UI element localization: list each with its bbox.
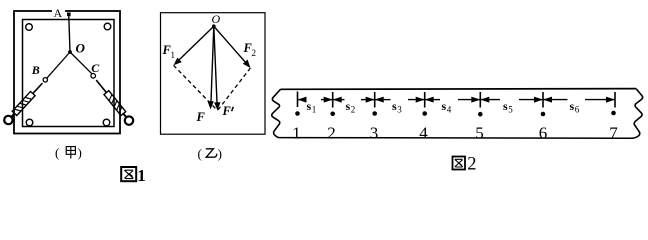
tape right torn edge — [633, 89, 643, 139]
board inner rectangle — [23, 20, 115, 127]
s4 arrows — [425, 97, 481, 103]
hook loop C — [91, 74, 96, 79]
svg-text:1: 1 — [171, 50, 176, 60]
label s3 — [392, 99, 402, 115]
pin at A — [67, 13, 71, 17]
label s5 — [503, 99, 513, 115]
force F1 arrow — [174, 26, 214, 65]
svg-text:6: 6 — [575, 105, 580, 115]
hole bottom-left — [26, 119, 33, 126]
dashed side from F2 tip — [218, 68, 251, 111]
s3 arrows — [375, 97, 425, 103]
tick mark 7 — [614, 92, 616, 108]
tape top edge — [281, 88, 637, 91]
timer dot 6 — [541, 112, 546, 117]
timer dot 5 — [478, 112, 483, 117]
timer dot 2 — [330, 112, 335, 117]
svg-text:3: 3 — [370, 123, 379, 142]
string O to C — [70, 52, 92, 74]
force F2 arrow — [214, 26, 251, 68]
svg-text:2: 2 — [327, 123, 336, 142]
dashed side from F1 tip — [174, 65, 218, 110]
timer dot 3 — [372, 111, 377, 116]
label A background patch — [52, 8, 65, 17]
timer dot 7 — [611, 111, 616, 116]
tick mark 4 — [424, 92, 426, 108]
caption tu 2 — [453, 154, 477, 174]
svg-text:1: 1 — [312, 105, 317, 115]
svg-text:F: F — [196, 110, 206, 124]
label F1 — [162, 43, 176, 60]
svg-text:): ) — [78, 145, 82, 160]
tape bottom edge — [279, 137, 633, 140]
hole bottom-right — [103, 119, 110, 126]
s6 arrows — [543, 97, 615, 103]
force F arrow — [208, 26, 214, 109]
svg-text:O: O — [76, 41, 86, 56]
svg-text:A: A — [54, 6, 63, 20]
svg-text:(: ( — [198, 146, 202, 161]
tick mark 2 — [332, 92, 334, 108]
svg-text:6: 6 — [539, 123, 548, 142]
label s4 — [442, 99, 452, 115]
hook loop B — [43, 78, 47, 82]
spring scale left — [2, 80, 45, 126]
knot O — [68, 50, 72, 54]
svg-text:7: 7 — [609, 123, 618, 142]
svg-text:2: 2 — [467, 154, 476, 174]
svg-text:5: 5 — [475, 123, 484, 142]
svg-text:1: 1 — [137, 166, 146, 185]
force F-prime arrow — [214, 26, 221, 110]
tick mark 3 — [374, 92, 376, 108]
string O to B — [47, 52, 70, 78]
board outer rectangle — [14, 11, 120, 134]
svg-text:4: 4 — [447, 105, 452, 115]
s1 arrows — [298, 97, 333, 103]
caption (jia) — [55, 145, 82, 160]
label F-prime — [222, 104, 234, 118]
svg-text:3: 3 — [397, 105, 402, 115]
point O dot — [212, 24, 216, 28]
rubber band A to O — [69, 16, 70, 52]
s5 arrows — [480, 97, 543, 103]
label s2 — [346, 99, 356, 115]
label s1 — [307, 99, 317, 115]
svg-text:2: 2 — [252, 48, 257, 58]
svg-text:): ) — [218, 146, 222, 161]
diagram frame (yi) — [161, 13, 266, 135]
svg-text:B: B — [31, 63, 40, 77]
label s6 — [570, 99, 580, 115]
spring scale right — [93, 77, 135, 126]
hole top-right — [104, 23, 111, 30]
timer dot 4 — [422, 111, 427, 116]
svg-text:C: C — [91, 61, 100, 75]
label F2 — [243, 41, 257, 58]
tick mark 6 — [542, 92, 544, 108]
hole top-left — [26, 24, 33, 31]
caption tu 1 — [121, 166, 146, 185]
tick mark 1 — [297, 92, 299, 108]
svg-text:O: O — [212, 12, 221, 26]
tick mark 5 — [479, 92, 481, 108]
svg-text:5: 5 — [508, 105, 513, 115]
s2 arrows — [333, 97, 375, 103]
svg-text:1: 1 — [292, 123, 301, 142]
caption (yi) — [198, 146, 222, 161]
tape left torn edge — [272, 89, 281, 137]
timer dot 1 — [295, 111, 300, 116]
svg-text:4: 4 — [419, 123, 428, 142]
svg-text:2: 2 — [351, 105, 356, 115]
svg-text:(: ( — [55, 145, 59, 160]
svg-text:F: F — [222, 104, 232, 118]
